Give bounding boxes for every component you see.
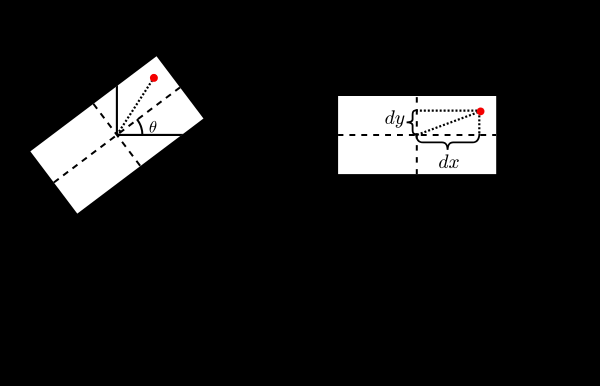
- right red keypoint dot: [477, 108, 485, 116]
- left dotted line to keypoint: [117, 78, 154, 135]
- right dotted horizontal offset line: [416, 110, 481, 112]
- dx curly brace: [416, 134, 479, 150]
- dy label: [385, 110, 404, 128]
- left red keypoint dot: [150, 74, 158, 82]
- right dotted vertical offset line: [478, 111, 480, 135]
- dy curly brace: [407, 110, 418, 134]
- left rotated white box: [30, 56, 203, 213]
- right white box: [338, 96, 496, 174]
- theta label: [150, 121, 157, 133]
- left box major axis dashed line: [54, 87, 180, 182]
- theta angle arc: [137, 119, 143, 135]
- right dotted diagonal line: [417, 112, 480, 135]
- right horizontal dashed center line: [338, 134, 497, 136]
- left box minor axis dashed line: [93, 104, 140, 166]
- left solid horizontal axis: [117, 134, 190, 136]
- right vertical dashed center line: [416, 97, 418, 174]
- left solid vertical axis: [116, 84, 118, 135]
- dx label: [439, 154, 459, 168]
